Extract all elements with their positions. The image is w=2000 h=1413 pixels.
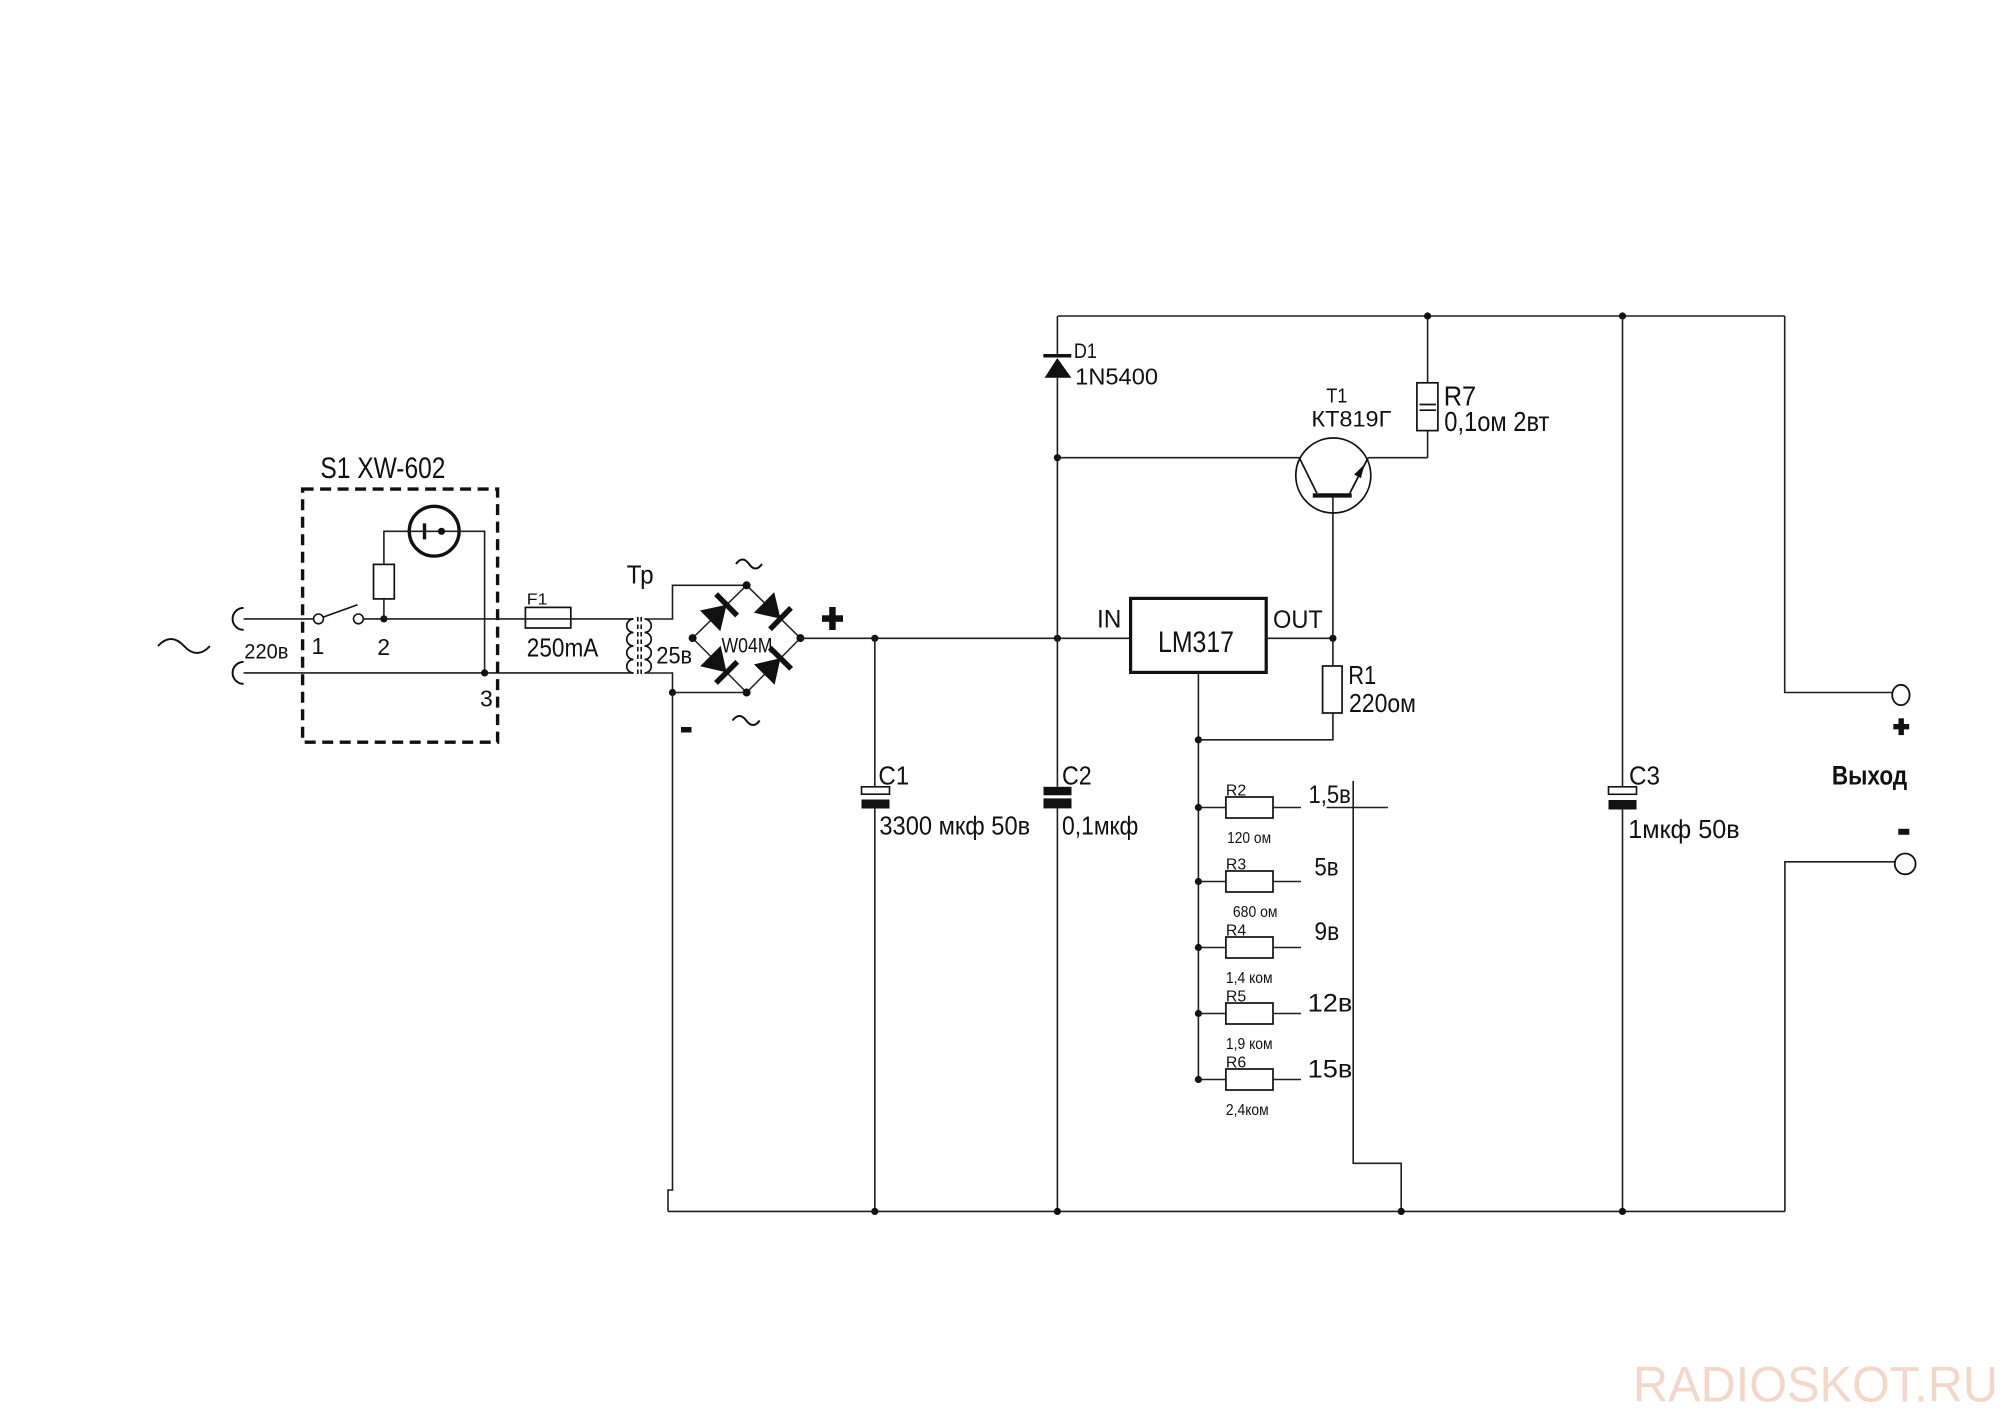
junction C3 to top rail	[1619, 312, 1626, 319]
svg-text:R6: R6	[1226, 1055, 1246, 1072]
svg-text:R3: R3	[1226, 857, 1246, 874]
transistor T1 collector stroke	[1299, 458, 1317, 494]
switch contact circle pin2	[354, 614, 364, 624]
svg-text:220ом: 220ом	[1349, 688, 1416, 718]
wire resistor top lead to lamp	[384, 531, 409, 564]
label + (output)	[1893, 724, 1909, 729]
transformer core	[637, 617, 639, 675]
resistor R2 body	[1226, 797, 1273, 818]
wire voltage selector	[1353, 781, 1401, 1212]
resistor R5 body	[1226, 1003, 1273, 1024]
bridge diode VD2 (T to R)	[770, 608, 791, 629]
fuse F1 body	[525, 607, 570, 628]
svg-text:120 ом: 120 ом	[1227, 830, 1271, 847]
switch contact circle pin1	[314, 614, 324, 624]
wire minus node to bridge bottom vertex	[673, 692, 747, 694]
bridge side B-R	[747, 638, 801, 692]
wire + output	[1785, 316, 1893, 693]
lamp ballast resistor	[374, 564, 395, 599]
svg-text:15в: 15в	[1308, 1056, 1353, 1084]
svg-text:Тр: Тр	[627, 560, 654, 590]
svg-text:IN: IN	[1097, 606, 1121, 634]
output terminal -	[1895, 854, 1916, 875]
svg-text:Выход: Выход	[1832, 761, 1907, 791]
svg-text:2,4ком: 2,4ком	[1226, 1102, 1269, 1119]
svg-text:RADIOSKOT.RU: RADIOSKOT.RU	[1633, 1357, 1998, 1413]
svg-text:12в: 12в	[1308, 990, 1353, 1018]
junction C3 to bottom rail	[1619, 1208, 1626, 1215]
svg-text:F1: F1	[527, 592, 548, 609]
wire lamp to node 3	[459, 531, 485, 673]
junction ladder node R3	[1195, 878, 1202, 885]
svg-text:R1: R1	[1348, 660, 1376, 690]
svg-text:1,9 ком: 1,9 ком	[1226, 1036, 1273, 1053]
capacitor C3 upper lead	[1622, 316, 1624, 787]
wire top-rail corner down to D1	[1056, 316, 1058, 354]
resistor R7 power marks	[1420, 404, 1437, 406]
lamp electrode dot	[438, 528, 445, 535]
svg-text:OUT: OUT	[1273, 606, 1323, 634]
resistor R7 body	[1417, 383, 1438, 431]
svg-text:3: 3	[480, 686, 493, 712]
junction bridge vertex right	[796, 634, 804, 642]
wire secondary bottom to minus node	[645, 673, 673, 693]
wire R4 right lead	[1273, 947, 1301, 949]
junction ladder node R5	[1195, 1010, 1202, 1017]
capacitor C1 lower lead	[874, 809, 876, 1212]
wire R7 bottom lead	[1427, 431, 1429, 458]
bridge diode VD4 (B to R)	[770, 648, 791, 669]
junction bridge vertex top	[743, 581, 751, 589]
resistor R4 body	[1226, 937, 1273, 958]
svg-text:R4: R4	[1226, 923, 1246, 940]
bridge side L-T	[693, 585, 747, 638]
svg-text:9в: 9в	[1314, 918, 1339, 946]
wire switch to fuse	[363, 618, 633, 620]
capacitor C3 bottom plate	[1609, 800, 1637, 810]
svg-text:25в: 25в	[656, 643, 692, 670]
svg-text:1N5400: 1N5400	[1075, 364, 1158, 390]
wire D1 to IN node and C2	[1056, 378, 1058, 787]
svg-text:2: 2	[377, 634, 390, 660]
svg-text:1,4 ком: 1,4 ком	[1226, 970, 1273, 987]
transformer secondary winding	[645, 619, 652, 673]
junction node 3	[481, 669, 488, 676]
wire secondary top to bridge AC top	[645, 585, 747, 619]
junction R7 to top rail	[1424, 312, 1431, 319]
wire 1,5в tap underline	[1327, 807, 1388, 809]
bridge diode VD3 (L to B)	[716, 662, 737, 683]
input terminal top (hook)	[233, 608, 244, 630]
svg-text:5в: 5в	[1314, 853, 1338, 881]
wire R1 bottom to ADJ	[1198, 713, 1333, 740]
junction C2 to bottom rail	[1054, 1208, 1061, 1215]
svg-text:0,1ом 2вт: 0,1ом 2вт	[1444, 406, 1549, 437]
label - (output)	[1898, 829, 1909, 835]
junction selector to bottom rail	[1398, 1208, 1405, 1215]
junction D1/C2/IN node	[1054, 635, 1061, 642]
transformer primary winding	[627, 619, 634, 673]
svg-text:C3: C3	[1629, 761, 1660, 791]
neon lamp HL circle	[409, 506, 459, 556]
svg-text:0,1мкф: 0,1мкф	[1062, 811, 1138, 841]
junction bridge vertex left	[689, 634, 697, 642]
wire resistor bottom lead	[383, 599, 385, 619]
svg-text:S1 XW-602: S1 XW-602	[320, 452, 445, 485]
AC tilde above bridge	[736, 560, 762, 569]
capacitor C3 lower lead	[1622, 810, 1624, 1212]
transistor T1 circle	[1296, 438, 1371, 513]
label - (rectifier output)	[681, 727, 692, 733]
regulator U1 LM317 box	[1131, 598, 1267, 672]
capacitor C2 top plate	[1044, 787, 1072, 796]
svg-text:R5: R5	[1226, 989, 1246, 1006]
wire R2 left lead	[1198, 807, 1226, 809]
wire R3 right lead	[1273, 881, 1301, 883]
transistor T1 emitter stroke with arrow	[1350, 458, 1368, 494]
junction T1 base tap	[1054, 454, 1061, 461]
bottom rail	[668, 1210, 1785, 1212]
svg-text:C1: C1	[878, 761, 909, 791]
lamp electrode bar	[423, 523, 426, 539]
wire R6 left lead	[1198, 1079, 1226, 1081]
svg-text:3300 мкф 50в: 3300 мкф 50в	[879, 811, 1030, 841]
junction ADJ/R1 node	[1195, 736, 1202, 743]
lamp inner lead line	[409, 530, 459, 532]
svg-text:R2: R2	[1226, 783, 1246, 800]
wire top input to switch	[244, 618, 314, 620]
svg-text:680 ом: 680 ом	[1233, 904, 1278, 921]
wire - output	[1785, 862, 1895, 1212]
wire R3 left lead	[1198, 881, 1226, 883]
wire minus drop to bottom rail	[668, 693, 673, 1212]
junction switch/lamp-resistor	[380, 615, 387, 622]
wire bottom input to transformer primary	[244, 672, 634, 674]
capacitor C1 upper lead	[874, 638, 876, 787]
wire R6 right lead	[1273, 1079, 1301, 1081]
wire R4 left lead	[1198, 947, 1226, 949]
switch lever	[323, 605, 358, 617]
svg-text:220в: 220в	[244, 640, 288, 663]
top rail	[1058, 315, 1785, 317]
wire R2 right lead	[1273, 807, 1301, 809]
diode D1 cathode bar	[1043, 354, 1071, 358]
switch module S1 XW-602 dashed box	[303, 489, 498, 742]
svg-text:1мкф 50в: 1мкф 50в	[1628, 814, 1740, 844]
junction C1 to bottom rail	[871, 1208, 878, 1215]
junction ladder node R4	[1195, 944, 1202, 951]
label + (rectifier output)	[822, 615, 843, 622]
wire bridge + output to LM317 IN	[800, 637, 1130, 639]
capacitor C1 bottom plate	[862, 800, 890, 809]
capacitor C1 top plate	[862, 787, 890, 794]
AC tilde below bridge	[733, 716, 760, 725]
resistor R1 body	[1323, 666, 1343, 713]
AC source symbol (sine)	[158, 639, 210, 653]
wire base drop / R1 top lead	[1332, 498, 1334, 666]
transistor T1 base bar	[1313, 493, 1352, 497]
bridge diode VD1 (L to T)	[716, 594, 737, 615]
capacitor C3 top plate	[1609, 787, 1637, 795]
junction ladder node R2	[1195, 804, 1202, 811]
wire collector to D1 branch	[1057, 457, 1299, 459]
wire OUT to base/R1 node	[1266, 637, 1333, 639]
junction C1 tap	[871, 635, 878, 642]
input terminal bottom (hook)	[233, 662, 244, 684]
junction OUT node	[1329, 635, 1336, 642]
junction ladder node R6	[1195, 1076, 1202, 1083]
wire R5 left lead	[1198, 1013, 1226, 1015]
capacitor C2 bottom plate	[1044, 798, 1072, 808]
svg-text:250mA: 250mA	[527, 632, 599, 662]
svg-text:1: 1	[312, 633, 325, 659]
svg-text:КТ819Г: КТ819Г	[1311, 407, 1391, 432]
junction bridge vertex bottom	[743, 689, 751, 697]
bridge side T-R	[747, 585, 801, 638]
svg-text:D1: D1	[1074, 340, 1097, 363]
resistor R6 body	[1226, 1069, 1273, 1090]
bridge side L-B	[693, 638, 747, 692]
svg-text:1,5в: 1,5в	[1309, 781, 1351, 809]
wire R7 top lead	[1427, 316, 1429, 383]
svg-text:W04M: W04M	[722, 634, 773, 657]
output terminal +	[1892, 685, 1909, 705]
svg-text:T1: T1	[1326, 386, 1347, 408]
svg-text:C2: C2	[1062, 761, 1092, 791]
capacitor C2 lower lead	[1056, 808, 1058, 1211]
wire ADJ pin down	[1197, 672, 1199, 1079]
diode D1 triangle	[1045, 358, 1072, 378]
wire R5 right lead	[1273, 1013, 1301, 1015]
svg-text:LM317: LM317	[1158, 626, 1234, 659]
resistor R3 body	[1226, 871, 1273, 892]
wire emitter to R7	[1368, 457, 1427, 459]
junction minus node	[669, 689, 676, 696]
